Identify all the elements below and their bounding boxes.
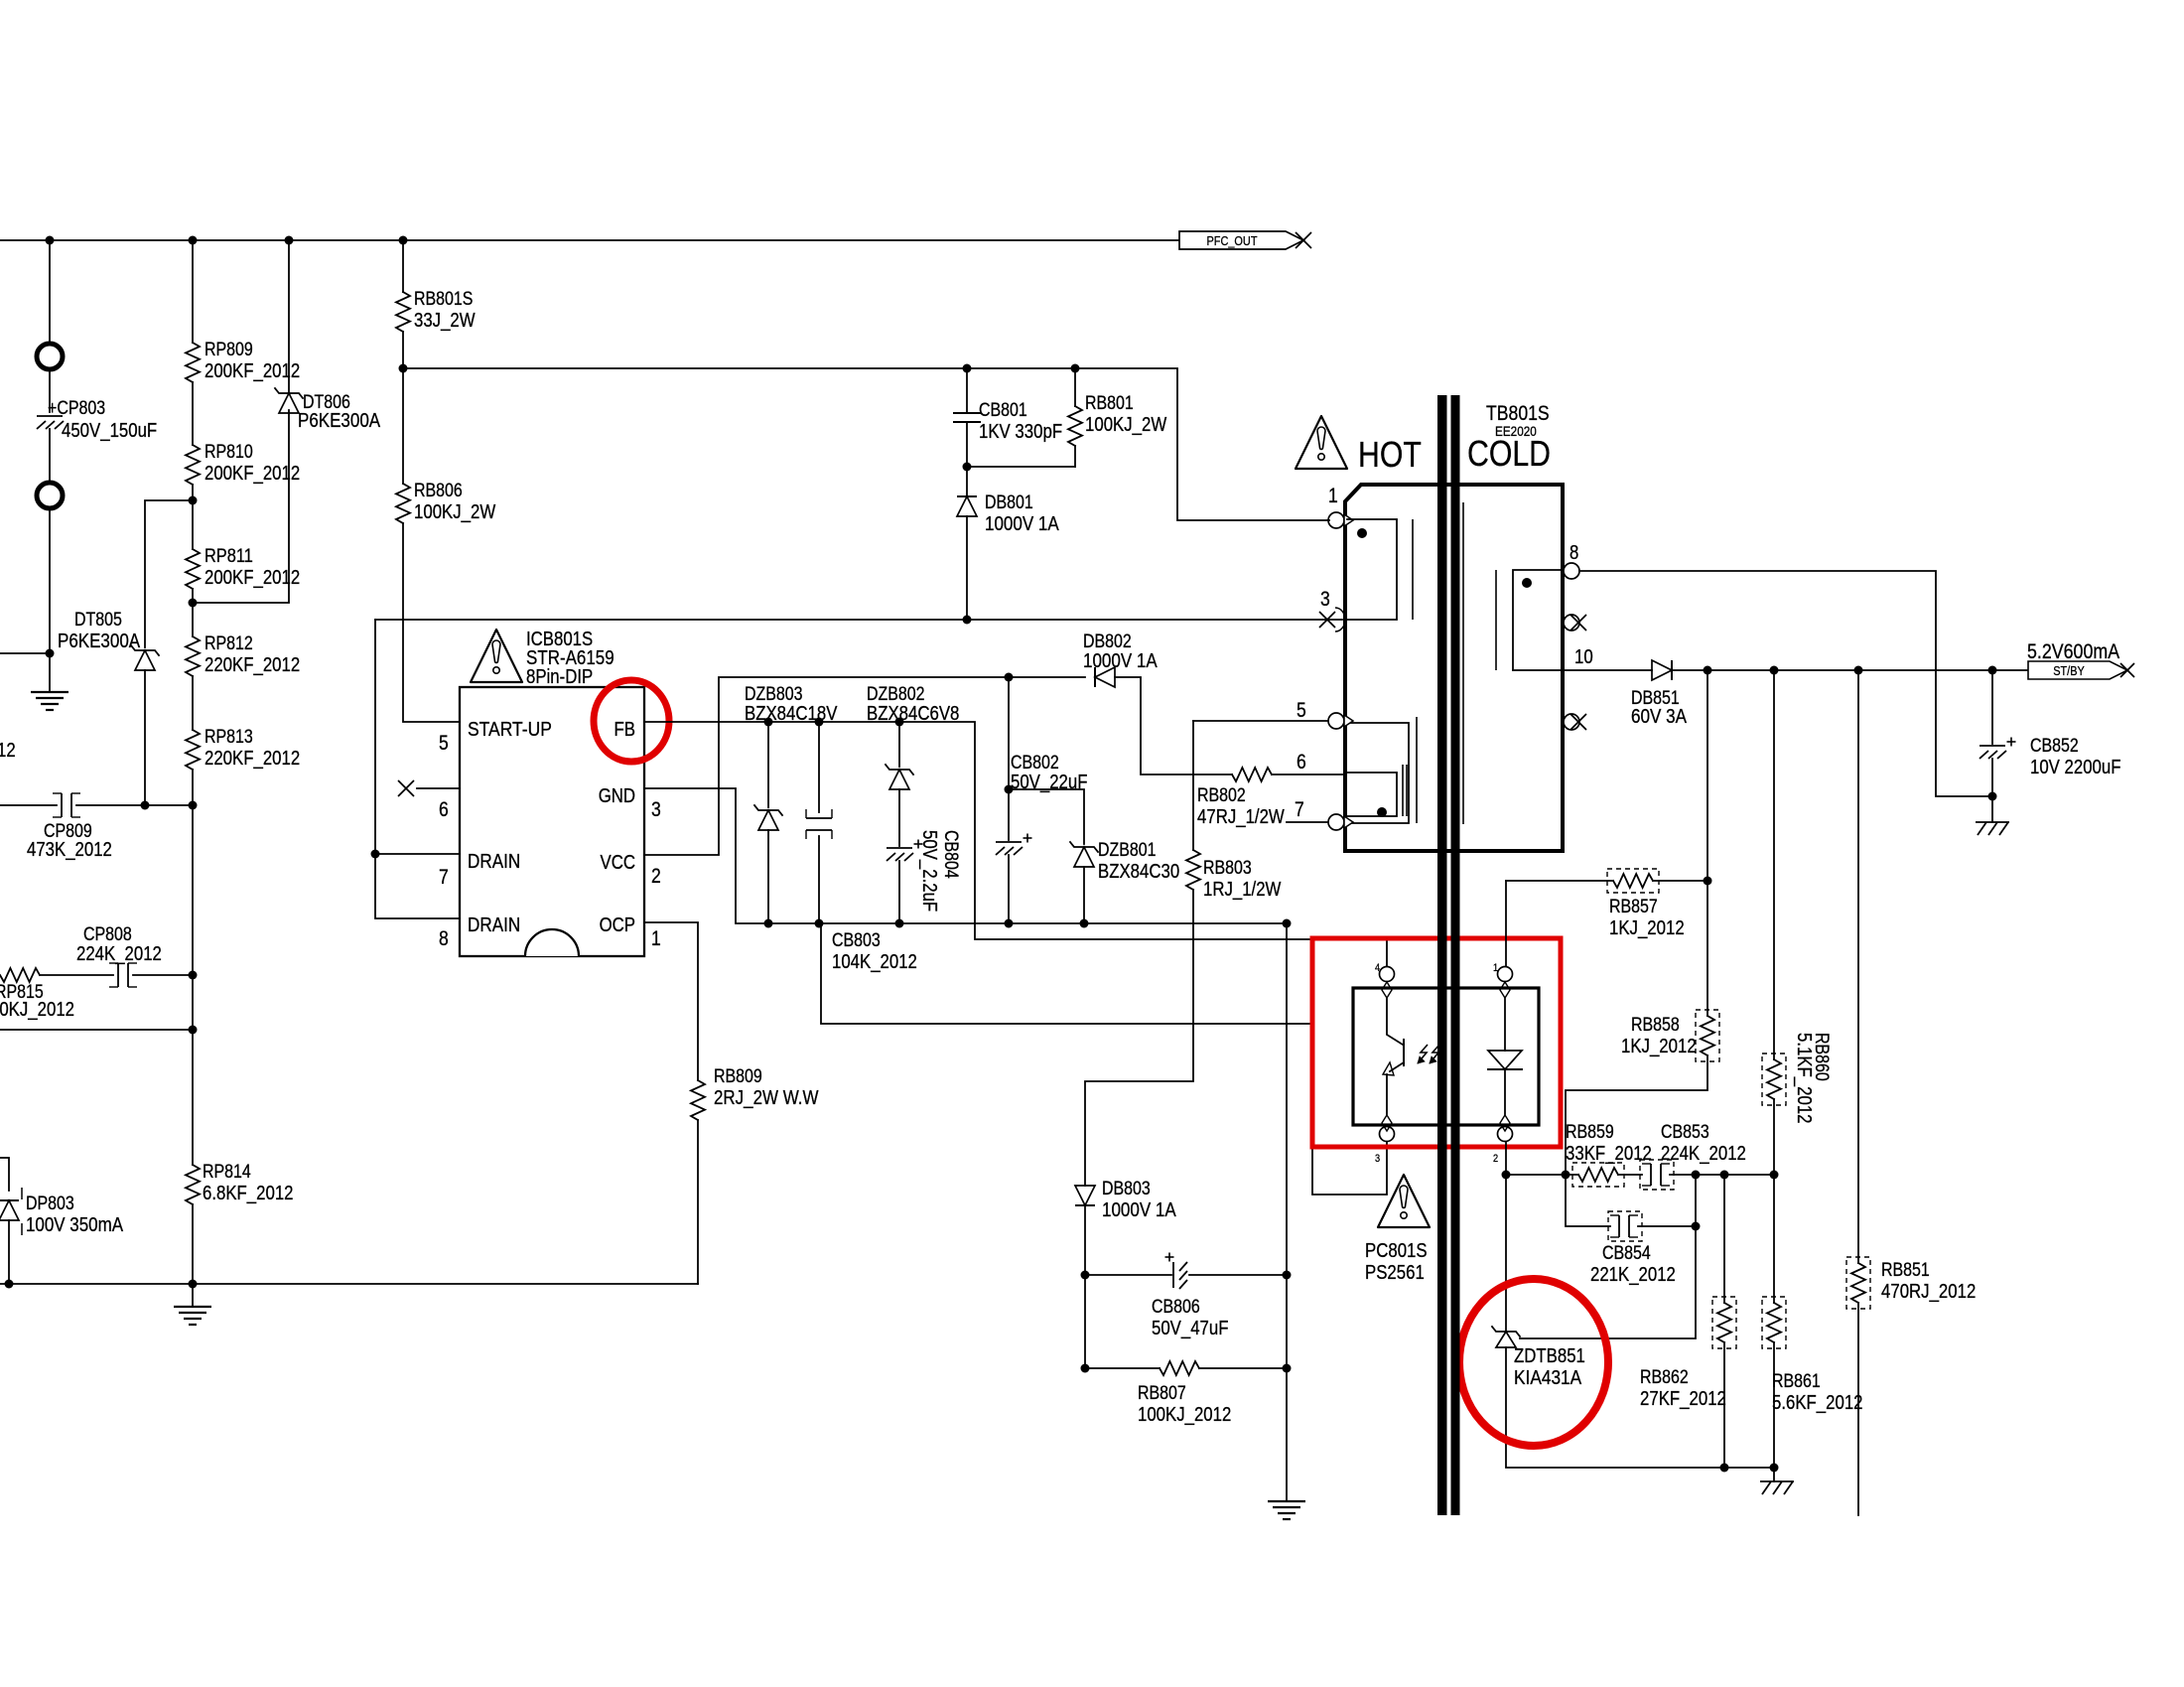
wire CP803 mid — [49, 369, 51, 412]
svg-text:RP810: RP810 — [205, 442, 253, 463]
pin 8 circle — [1564, 563, 1579, 579]
wire pin5 — [1193, 720, 1328, 722]
wire CP809 left — [0, 804, 57, 806]
node pin7 tap — [371, 850, 380, 859]
svg-text:200KF_2012: 200KF_2012 — [205, 463, 300, 485]
svg-text:3: 3 — [1375, 1153, 1380, 1165]
wire CB806-RB807 right — [1286, 1275, 1288, 1368]
svg-text:DZB802: DZB802 — [867, 684, 925, 705]
wire pin7 — [375, 853, 460, 855]
node FB-DZB802 — [895, 718, 904, 727]
svg-text:DRAIN: DRAIN — [468, 914, 520, 936]
wire pin10 — [1563, 669, 1652, 671]
wire RB806 upper — [402, 368, 404, 484]
wire output — [1672, 669, 2028, 671]
svg-text:RP812: RP812 — [205, 633, 253, 654]
capacitor CB853 — [1650, 1164, 1652, 1186]
wire CB853 right — [1670, 1174, 1774, 1176]
wire CP809 right — [76, 804, 193, 806]
wire opto pin2 drop — [1505, 1142, 1507, 1332]
terminal ring upper — [37, 344, 63, 369]
wire RB857 line — [1506, 880, 1613, 882]
node rail-RB861 — [1770, 1464, 1779, 1473]
svg-text:2: 2 — [651, 865, 661, 888]
node CB806 right — [1283, 1271, 1292, 1280]
svg-text:DB803: DB803 — [1102, 1179, 1151, 1199]
svg-text:1: 1 — [651, 927, 661, 950]
capacitor CB852 — [1991, 670, 1993, 744]
node gnd-DZB803 — [764, 919, 773, 928]
node RB801 top — [1071, 364, 1080, 373]
wire DT805 bottom — [144, 670, 146, 805]
wire y1037 — [0, 1029, 193, 1031]
node RP813-CP809 — [189, 801, 198, 810]
wire CB854 riser — [1520, 1175, 1696, 1338]
capacitor CB854 — [1618, 1215, 1620, 1237]
svg-text:RB803: RB803 — [1203, 858, 1252, 879]
resistor RP814 — [186, 1165, 200, 1204]
svg-text:470RJ_2012: 470RJ_2012 — [1881, 1281, 1976, 1303]
node rail-RP814 — [189, 1280, 198, 1289]
svg-text:100KJ_2W: 100KJ_2W — [1085, 414, 1166, 436]
resistor RB861 — [1767, 1303, 1781, 1342]
svg-text:ZDTB851: ZDTB851 — [1514, 1345, 1585, 1367]
wire DB803 bottom — [1084, 1205, 1086, 1275]
diode DB802 — [1095, 667, 1115, 687]
wire RP810-node — [192, 485, 194, 549]
node gnd-CB804 — [895, 919, 904, 928]
node rail-RP809 — [189, 236, 198, 245]
wire DP803 top — [0, 1158, 9, 1191]
wire to cold gnd — [1286, 1368, 1288, 1501]
svg-text:12: 12 — [0, 740, 16, 762]
svg-text:100KJ_2012: 100KJ_2012 — [1138, 1404, 1231, 1426]
wire GND net — [644, 788, 1287, 923]
node CB801 top — [963, 364, 972, 373]
svg-text:GND: GND — [599, 785, 635, 807]
svg-text:3: 3 — [1320, 588, 1330, 611]
node out-RB860 — [1770, 666, 1779, 675]
node FB-DZB803 — [764, 718, 773, 727]
svg-text:5: 5 — [439, 732, 449, 755]
svg-text:RB801S: RB801S — [414, 289, 473, 310]
svg-text:4: 4 — [1375, 962, 1380, 974]
node gnd-left — [46, 649, 55, 658]
svg-text:1000V 1A: 1000V 1A — [1083, 650, 1158, 672]
svg-text:224K_2012: 224K_2012 — [1661, 1143, 1746, 1165]
zener DZB802 — [898, 722, 900, 767]
resistor RB801S — [396, 292, 410, 332]
node RB807 right — [1283, 1364, 1292, 1373]
svg-text:DZB803: DZB803 — [745, 684, 803, 705]
wire CP803 low — [49, 429, 51, 483]
node RB860-line — [1770, 1171, 1779, 1180]
svg-text:DB802: DB802 — [1083, 632, 1132, 652]
wire to DT806 bottom — [193, 410, 289, 603]
svg-text:5: 5 — [1297, 699, 1306, 722]
wire VCC net — [644, 677, 1085, 855]
svg-text:1RJ_1/2W: 1RJ_1/2W — [1203, 879, 1281, 901]
wire RB858 top — [1706, 881, 1708, 1016]
svg-text:8: 8 — [439, 927, 449, 950]
svg-text:6: 6 — [439, 798, 449, 821]
primary winding upper — [1347, 519, 1397, 620]
capacitor CB802 — [1008, 677, 1010, 840]
svg-text:RB802: RB802 — [1197, 785, 1246, 806]
svg-text:1: 1 — [1493, 962, 1498, 974]
resistor RB862 — [1717, 1303, 1731, 1342]
node CB854-line — [1692, 1171, 1701, 1180]
node rail-DT806 — [285, 236, 294, 245]
resistor RB859 — [1578, 1168, 1618, 1182]
connector STBY — [2028, 661, 2127, 679]
svg-text:BZX84C6V8: BZX84C6V8 — [867, 703, 959, 725]
zener DZB803 — [767, 722, 769, 807]
svg-text:RP813: RP813 — [205, 727, 253, 748]
svg-text:RP814: RP814 — [203, 1162, 251, 1183]
svg-text:PS2561: PS2561 — [1365, 1262, 1425, 1284]
pin 1 circle — [1328, 512, 1344, 528]
svg-text:100KJ_2W: 100KJ_2W — [414, 501, 495, 523]
wire DB802 to RB802 — [1115, 677, 1232, 774]
wire RB807 line — [1085, 1367, 1160, 1369]
node rail-CP803 — [46, 236, 55, 245]
svg-text:27KF_2012: 27KF_2012 — [1640, 1388, 1726, 1410]
svg-text:473K_2012: 473K_2012 — [27, 839, 112, 861]
wire CB854 right — [1638, 1225, 1696, 1227]
optocoupler PC801S body — [1353, 988, 1539, 1125]
svg-text:DT805: DT805 — [74, 610, 122, 631]
svg-text:CB804: CB804 — [940, 830, 961, 879]
svg-text:220KF_2012: 220KF_2012 — [205, 654, 300, 676]
wire net-B horizontal — [403, 368, 1327, 520]
opto LED — [1504, 999, 1506, 1051]
svg-text:BZX84C30: BZX84C30 — [1098, 861, 1179, 883]
svg-text:START-UP: START-UP — [468, 719, 552, 741]
svg-text:10KJ_2012: 10KJ_2012 — [0, 999, 74, 1021]
wire to primary gnd — [49, 508, 51, 653]
wire CB854 left — [1566, 1175, 1610, 1226]
resistor RP813 — [186, 730, 200, 770]
wire DP803 bottom — [8, 1220, 10, 1284]
wire pin7 — [1287, 821, 1328, 823]
node out-CB852 — [1988, 666, 1997, 675]
svg-text:220KF_2012: 220KF_2012 — [205, 748, 300, 770]
capacitor CB804 — [887, 847, 912, 849]
HOT COLD barrier — [1437, 395, 1447, 1515]
svg-text:1: 1 — [1328, 485, 1338, 507]
wire FB net — [644, 722, 1387, 967]
diode DT806 — [275, 388, 303, 398]
svg-text:+CP803: +CP803 — [48, 398, 105, 419]
wire RB806 to pin5 — [403, 523, 460, 722]
svg-text:450V_150uF: 450V_150uF — [62, 420, 157, 442]
svg-text:RB809: RB809 — [714, 1066, 762, 1087]
phase dot secondary — [1522, 578, 1532, 588]
wire opto emitter to gnd — [821, 923, 1312, 1024]
node CB806 left — [1081, 1271, 1090, 1280]
svg-text:1KJ_2012: 1KJ_2012 — [1609, 917, 1685, 939]
wire pin8 net — [1579, 571, 1988, 796]
capacitor CP803 — [37, 415, 63, 417]
svg-text:47RJ_1/2W: 47RJ_1/2W — [1197, 806, 1285, 828]
svg-text:3: 3 — [651, 798, 661, 821]
svg-text:CB803: CB803 — [832, 930, 881, 951]
svg-text:RB857: RB857 — [1609, 897, 1658, 917]
svg-text:6.8KF_2012: 6.8KF_2012 — [203, 1183, 294, 1204]
svg-text:7: 7 — [439, 866, 449, 889]
svg-text:5.1KF_2012: 5.1KF_2012 — [1793, 1033, 1815, 1124]
svg-text:RB801: RB801 — [1085, 393, 1134, 414]
pin nc lower circle — [1564, 714, 1579, 730]
pin 3 no-connect X — [1319, 612, 1335, 628]
node out-RB857 — [1704, 666, 1712, 675]
wire RB801S-node — [402, 332, 404, 368]
wire CP803 top — [49, 240, 51, 343]
wire RP815-CP808 — [40, 974, 113, 976]
terminal ring lower — [37, 483, 63, 508]
wire RB862 top — [1723, 1175, 1725, 1303]
ground primary left — [49, 653, 51, 692]
wire OCP net — [644, 922, 698, 1080]
wire RB860 bottom — [1773, 1099, 1775, 1175]
resistor RP809 — [186, 343, 200, 382]
node rail-RB801S — [399, 236, 408, 245]
node CB852 gnd — [1988, 792, 1997, 801]
resistor RB809 — [691, 1080, 705, 1120]
wire RP813-CP809 — [192, 770, 194, 805]
svg-text:RB859: RB859 — [1566, 1122, 1614, 1143]
node y1037 — [189, 1026, 198, 1035]
capacitor CP809 — [61, 793, 63, 817]
wire opto emitter riser — [1312, 1024, 1387, 1195]
wire drain vertical — [375, 620, 460, 918]
svg-text:1000V 1A: 1000V 1A — [985, 513, 1059, 535]
node CB801 bottom — [963, 463, 972, 472]
resistor RP812 — [186, 636, 200, 676]
svg-text:7: 7 — [1295, 798, 1304, 821]
wire RP809 top — [192, 240, 194, 343]
wire RP814 bottom — [192, 1204, 194, 1284]
svg-text:CB802: CB802 — [1011, 753, 1059, 773]
svg-text:50V_2.2uF: 50V_2.2uF — [918, 830, 940, 912]
opto pin2 bottom-right — [1498, 1127, 1513, 1142]
resistor RB851 — [1851, 1263, 1865, 1303]
resistor RB806 — [396, 484, 410, 523]
resistor RB857 — [1613, 874, 1653, 888]
diode DT805 — [131, 645, 159, 655]
ground CB852 — [1991, 796, 1993, 822]
opto light arrows — [1418, 1045, 1428, 1063]
wire CP808 right — [133, 974, 193, 976]
wire RB860 top — [1773, 670, 1775, 1059]
svg-text:224K_2012: 224K_2012 — [76, 943, 162, 965]
connector PFC_OUT — [1179, 231, 1303, 249]
warning triangle HOT — [1296, 416, 1347, 469]
svg-text:VCC: VCC — [601, 852, 636, 874]
node CB854 right — [1692, 1222, 1701, 1231]
diode DP803 — [0, 1200, 19, 1220]
zener DZB801 — [1009, 789, 1084, 844]
svg-text:CB806: CB806 — [1152, 1297, 1200, 1318]
wire RB801S top — [402, 240, 404, 292]
diode DB803 — [1075, 1186, 1095, 1205]
svg-text:HOT: HOT — [1358, 434, 1422, 475]
wire RB851 top — [1857, 670, 1859, 1263]
node gnd-DZB801 — [1080, 919, 1089, 928]
resistor RP810 — [186, 445, 200, 485]
node DB801 bottom — [963, 616, 972, 625]
wire left stub y658 — [0, 652, 50, 654]
FB highlight circle — [594, 680, 669, 762]
wire fb divider line — [1506, 1174, 1578, 1176]
svg-text:10: 10 — [1574, 646, 1593, 668]
diode DB801 — [966, 467, 968, 496]
svg-text:P6KE300A: P6KE300A — [298, 410, 381, 432]
opto phototransistor — [1387, 999, 1403, 1045]
wire DT806 top — [288, 240, 290, 393]
svg-text:104K_2012: 104K_2012 — [832, 951, 917, 973]
node rail-DP803 — [5, 1280, 14, 1289]
wire RB851 bottom — [1857, 1303, 1859, 1515]
wire PFC_OUT rail — [0, 239, 1179, 241]
svg-text:8Pin-DIP: 8Pin-DIP — [526, 666, 593, 688]
svg-text:200KF_2012: 200KF_2012 — [205, 567, 300, 589]
resistor RB858 — [1701, 1016, 1714, 1055]
phase dot primary lower — [1377, 807, 1387, 817]
svg-text:CB854: CB854 — [1602, 1243, 1651, 1264]
pin 7 circle — [1328, 814, 1344, 830]
capacitor CB806 — [1172, 1262, 1174, 1288]
pin nc upper circle — [1564, 615, 1579, 631]
svg-text:RB858: RB858 — [1631, 1015, 1680, 1036]
svg-text:BZX84C18V: BZX84C18V — [745, 703, 838, 725]
svg-text:1000V 1A: 1000V 1A — [1102, 1199, 1176, 1221]
node VCC-CB802 — [1005, 673, 1014, 682]
wire RB807 left v — [1084, 1275, 1086, 1368]
svg-text:DZB801: DZB801 — [1098, 840, 1157, 861]
svg-text:PC801S: PC801S — [1365, 1240, 1428, 1262]
wire RP812-RP813 — [192, 676, 194, 730]
pin 5 circle — [1328, 713, 1344, 729]
wire CB801-RB801 bottom — [967, 466, 1075, 468]
red circle ZDTB851 — [1459, 1279, 1608, 1446]
svg-text:CB801: CB801 — [979, 400, 1027, 421]
capacitor CP808 — [117, 963, 119, 987]
resistor RP811 — [186, 549, 200, 589]
svg-text:33KF_2012: 33KF_2012 — [1566, 1143, 1652, 1165]
resistor RB803 — [1192, 721, 1194, 850]
svg-text:5.6KF_2012: 5.6KF_2012 — [1772, 1392, 1863, 1414]
wire pin7-gnd drop — [1286, 923, 1288, 1275]
resistor RB807 — [1160, 1361, 1199, 1375]
ground cold divider — [1773, 1468, 1775, 1481]
transformer TB801S box — [1345, 485, 1563, 851]
svg-text:100V 350mA: 100V 350mA — [26, 1214, 124, 1236]
svg-text:KIA431A: KIA431A — [1514, 1367, 1582, 1389]
wire opto pin1 riser — [1505, 881, 1507, 966]
svg-text:33J_2W: 33J_2W — [414, 310, 476, 332]
primary winding lower — [1347, 723, 1409, 823]
svg-text:2: 2 — [1493, 1153, 1498, 1165]
wire RB858 bottom — [1566, 1055, 1707, 1175]
wire RP811-node — [192, 589, 194, 636]
node out-RB851 — [1854, 666, 1863, 675]
svg-text:1KV 330pF: 1KV 330pF — [979, 421, 1062, 443]
resistor RB801 — [1074, 368, 1076, 406]
node RB807 left — [1081, 1364, 1090, 1373]
resistor RP815 — [0, 968, 40, 982]
svg-text:DRAIN: DRAIN — [468, 851, 520, 873]
svg-text:50V_47uF: 50V_47uF — [1152, 1318, 1229, 1339]
svg-text:RP809: RP809 — [205, 340, 253, 360]
svg-text:200KF_2012: 200KF_2012 — [205, 360, 300, 382]
node rail-RB862 — [1720, 1464, 1729, 1473]
svg-text:DB801: DB801 — [985, 492, 1033, 513]
node gnd-pin7line — [1283, 919, 1292, 928]
svg-text:FB: FB — [614, 719, 636, 741]
svg-text:RB861: RB861 — [1772, 1371, 1821, 1392]
wire RB809 bottom — [697, 1120, 699, 1284]
pin 6 no-connect — [417, 787, 460, 789]
svg-text:TB801S: TB801S — [1486, 402, 1550, 425]
svg-text:RP811: RP811 — [205, 546, 253, 567]
wire primary gnd rail — [0, 1283, 698, 1285]
svg-text:DP803: DP803 — [26, 1194, 74, 1214]
wire RB859-CB853 — [1618, 1174, 1642, 1176]
svg-text:PFC_OUT: PFC_OUT — [1207, 233, 1258, 248]
node gnd-CB802 — [1005, 919, 1014, 928]
svg-text:CB853: CB853 — [1661, 1122, 1709, 1143]
wire to DT805 — [145, 500, 193, 647]
svg-text:CP808: CP808 — [83, 924, 132, 945]
svg-text:60V 3A: 60V 3A — [1631, 706, 1688, 728]
node DT806 tap — [189, 599, 198, 608]
svg-text:RB807: RB807 — [1138, 1383, 1186, 1404]
wire ZDTB851 anode — [1506, 1347, 1774, 1468]
svg-text:5.2V600mA: 5.2V600mA — [2027, 640, 2119, 663]
wire RB862 bottom — [1723, 1342, 1725, 1468]
svg-text:RB851: RB851 — [1881, 1260, 1930, 1281]
svg-text:6: 6 — [1297, 751, 1306, 773]
optocoupler PC801S red box — [1312, 938, 1561, 1147]
capacitor CB803 — [818, 722, 820, 812]
resistor RB802 — [1232, 768, 1272, 781]
opto pin3 bottom-left — [1380, 1127, 1395, 1142]
svg-text:P6KE300A: P6KE300A — [58, 631, 141, 652]
wire RP809-RP810 — [192, 382, 194, 445]
resistor RB860 — [1767, 1059, 1781, 1099]
node DT805 tap — [189, 496, 198, 505]
capacitor CB801 — [966, 368, 968, 413]
wire RB861 top — [1773, 1175, 1775, 1303]
diode DB851 — [1652, 660, 1672, 680]
svg-text:RB806: RB806 — [414, 481, 463, 501]
warning triangle PC801S — [1378, 1175, 1430, 1227]
svg-text:RB862: RB862 — [1640, 1367, 1689, 1388]
phase dot primary upper — [1357, 528, 1367, 538]
wire RB861 bottom — [1773, 1342, 1775, 1468]
wire to CP808 line — [192, 805, 194, 975]
ground primary main — [192, 1284, 194, 1307]
wire out to RB857 — [1706, 670, 1708, 881]
node RB858-line — [1562, 1171, 1570, 1180]
svg-text:ST/BY: ST/BY — [2053, 663, 2085, 678]
node RB857-out — [1704, 877, 1712, 886]
wire net-C — [375, 619, 1342, 621]
opto pin1 top-right — [1498, 967, 1513, 982]
node CP808 — [189, 971, 198, 980]
